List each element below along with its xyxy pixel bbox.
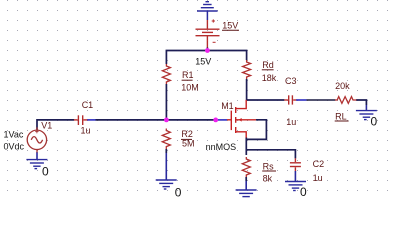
wire gate junction to M1 gate pin xyxy=(216,119,227,121)
voltage source V1 (1Vac 0Vdc) xyxy=(27,127,46,152)
junction dot at battery/rail xyxy=(205,48,210,53)
underline Rs xyxy=(262,170,276,172)
svg-text:15V: 15V xyxy=(195,56,211,66)
svg-text:1u: 1u xyxy=(81,126,91,136)
wire battery bottom to rail xyxy=(206,48,208,51)
svg-text:5M: 5M xyxy=(182,139,195,149)
svg-text:20k: 20k xyxy=(335,81,350,91)
ground 0 under R2 xyxy=(156,180,177,189)
capacitor C2 xyxy=(290,158,301,181)
dc source V2 battery 15V xyxy=(196,19,220,47)
svg-text:0: 0 xyxy=(300,185,307,198)
M1 bulk arrow xyxy=(239,118,242,122)
svg-text:V1: V1 xyxy=(41,121,52,131)
svg-text:RL: RL xyxy=(335,111,347,121)
wire C1 right to gate junction xyxy=(87,119,96,121)
svg-text:M1: M1 xyxy=(221,101,234,111)
wire drain node to C3 left xyxy=(247,99,285,101)
svg-text:R1: R1 xyxy=(182,70,194,80)
wire battery top to power ground xyxy=(206,11,208,20)
svg-text:C3: C3 xyxy=(285,76,297,86)
ground 0 under V1 xyxy=(26,160,47,169)
svg-text:0Vdc: 0Vdc xyxy=(4,141,25,151)
capacitor C3 xyxy=(284,95,296,104)
svg-text:1u: 1u xyxy=(286,117,296,127)
svg-text:1Vac: 1Vac xyxy=(4,129,24,139)
resistor Rd xyxy=(243,60,251,79)
svg-text:Rs: Rs xyxy=(263,161,274,171)
underline R1 xyxy=(182,79,193,81)
svg-text:18k: 18k xyxy=(262,73,277,83)
wire C3 right to RL left xyxy=(296,99,307,101)
junction dot at gate wire xyxy=(213,118,218,123)
svg-text:1u: 1u xyxy=(313,173,323,183)
wire RL right to ground xyxy=(356,100,366,105)
capacitor C1 xyxy=(74,115,87,125)
svg-text:0: 0 xyxy=(371,114,378,128)
svg-text:0: 0 xyxy=(175,185,182,198)
wire V1 top to C1 left xyxy=(37,120,74,130)
svg-text:C1: C1 xyxy=(82,100,94,110)
wire V1 bottom to ground xyxy=(36,152,38,160)
svg-text:10M: 10M xyxy=(181,82,199,92)
wire M1 bulk loop to source node xyxy=(246,120,266,140)
resistor Rs xyxy=(242,157,250,177)
ground 0 right of RL xyxy=(356,111,377,120)
wire M1 source down to Rs top xyxy=(245,137,247,155)
wire Rs bottom to ground xyxy=(245,177,247,181)
resistor R2 xyxy=(162,129,170,150)
mosfet M1 xyxy=(227,100,256,138)
svg-text:8k: 8k xyxy=(263,173,273,183)
wire R2 bottom to ground xyxy=(165,149,167,153)
junction dot at R1/R2 gate line xyxy=(164,118,169,123)
wire R1 bottom lead to gate line xyxy=(165,84,167,120)
svg-text:C2: C2 xyxy=(313,159,325,169)
underline R2 xyxy=(181,138,192,140)
ground 0 under C2 xyxy=(285,182,306,191)
svg-text:Rd: Rd xyxy=(262,60,274,70)
svg-text:15V: 15V xyxy=(222,20,238,30)
svg-text:nnMOS: nnMOS xyxy=(206,142,237,152)
wire Rd bottom to drain T node xyxy=(246,79,248,100)
resistor RL 20k horizontal xyxy=(335,97,357,104)
underline 15V xyxy=(222,29,239,31)
ground 0 under Rs xyxy=(236,190,257,199)
resistor R1 xyxy=(162,64,170,84)
underline RL xyxy=(335,120,349,122)
underline Rd xyxy=(262,69,274,71)
ground 0 at top (inverted, above battery) xyxy=(197,2,218,11)
svg-text:0: 0 xyxy=(42,165,49,179)
wire top rail from R1 top to Rd top xyxy=(166,51,246,65)
wire source node to C2 top xyxy=(246,150,295,159)
